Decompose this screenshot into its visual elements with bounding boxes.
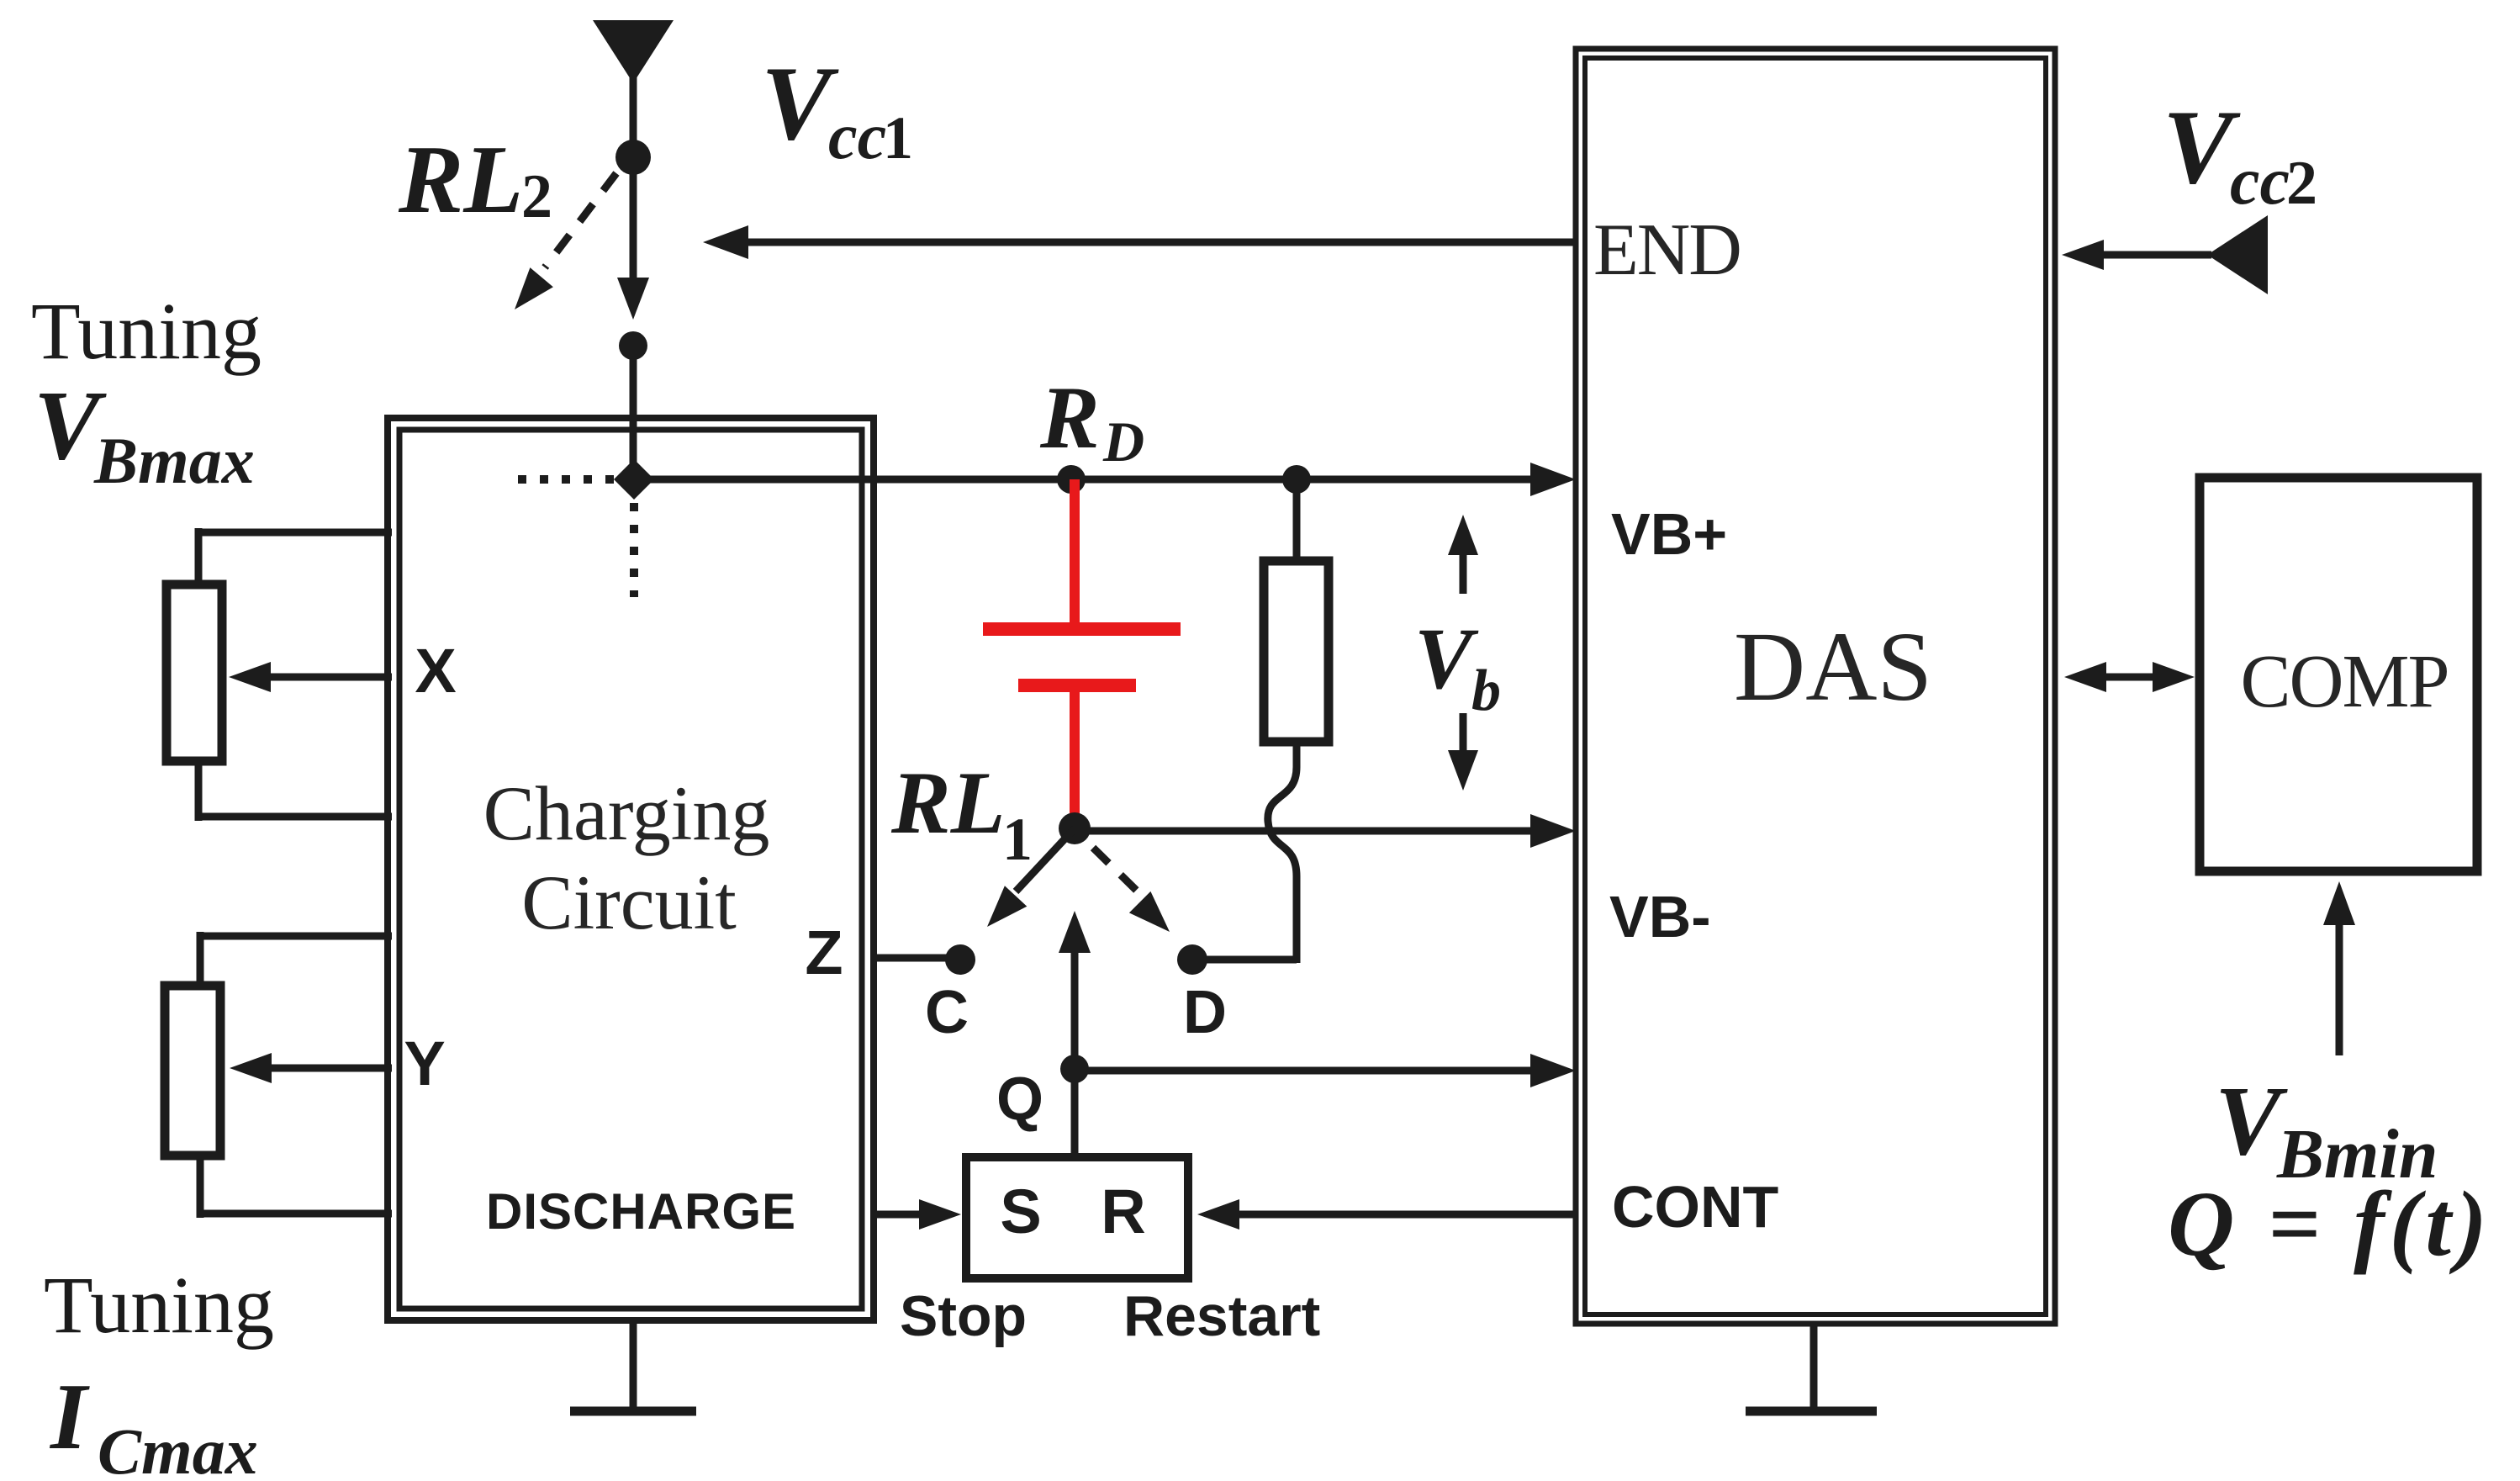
svg-text:Q = f(t): Q = f(t): [2168, 1172, 2492, 1275]
DAS block U3: [1576, 49, 2055, 1324]
svg-text:Circuit: Circuit: [521, 860, 737, 945]
svg-text:R: R: [1039, 368, 1100, 467]
svg-text:Tuning: Tuning: [44, 1260, 274, 1350]
svg-text:1: 1: [1002, 806, 1033, 873]
svg-text:RL: RL: [890, 754, 1005, 852]
svg-text:b: b: [1471, 659, 1501, 723]
svg-text:Cmax: Cmax: [98, 1415, 258, 1481]
wire X wiper arrow: [229, 662, 392, 692]
wire VB+ (node C1 to DAS): [634, 463, 1576, 496]
wire P1 top bracket: [198, 528, 392, 589]
svg-text:Q: Q: [996, 1066, 1043, 1133]
wire antenna node to node B (with arrow): [617, 157, 649, 320]
arrow Vb down: [1448, 713, 1478, 791]
node A (RL2 common): [615, 140, 651, 175]
label RD: [1039, 368, 1144, 473]
svg-text:Z: Z: [805, 918, 843, 987]
wire P2 top bracket: [200, 932, 392, 990]
label Restart: [1123, 1284, 1320, 1348]
wire Q vertical (arrow up): [1059, 911, 1091, 1157]
svg-text:D: D: [1102, 410, 1144, 473]
label Vcc2: [2163, 89, 2317, 219]
wire R input (CONT from DAS): [1197, 1199, 1578, 1230]
svg-text:2: 2: [521, 162, 552, 231]
svg-text:RL: RL: [398, 126, 523, 234]
svg-text:X: X: [415, 636, 456, 706]
node RL1 pole: [1059, 812, 1091, 844]
resistor RD body: [1264, 561, 1329, 742]
pin label D: [1183, 979, 1227, 1046]
label VBmax: [34, 370, 255, 497]
ground (charging circuit): [570, 1318, 696, 1411]
svg-text:Charging: Charging: [483, 770, 770, 856]
label Tuning (top): [31, 286, 262, 376]
pin label C: [925, 979, 969, 1046]
wire DAS-COMP double arrow: [2064, 662, 2195, 692]
svg-text:C: C: [925, 979, 969, 1046]
label ICmax: [49, 1365, 258, 1481]
node Q: [1060, 1055, 1089, 1083]
node B: [619, 331, 647, 360]
svg-text:Stop: Stop: [900, 1284, 1027, 1348]
label DISCHARGE: [486, 1183, 796, 1240]
pin label X: [415, 636, 456, 706]
COMP block U4: [2200, 478, 2477, 871]
contact C: [945, 944, 975, 975]
svg-text:DISCHARGE: DISCHARGE: [486, 1183, 796, 1240]
capacitor C (red): [983, 479, 1181, 828]
label RL1: [890, 754, 1033, 873]
pin label VB-: [1609, 884, 1711, 949]
pin label Q: [996, 1066, 1043, 1133]
node C1 (VB+ junction, diamond): [614, 459, 654, 500]
contact D: [1177, 944, 1207, 975]
wire RD to contact D: [1192, 956, 1297, 964]
svg-text:COMP: COMP: [2240, 640, 2448, 723]
svg-text:1: 1: [883, 104, 913, 172]
label COMP: [2240, 640, 2448, 723]
label Q = f(t): [2168, 1172, 2492, 1275]
wire RD top: [1293, 479, 1301, 565]
wire Q to DAS: [1075, 1054, 1576, 1087]
svg-text:V: V: [1414, 611, 1479, 707]
label RL2: [398, 126, 552, 234]
svg-text:cc: cc: [828, 99, 886, 172]
pin label Y: [404, 1029, 445, 1098]
svg-text:Restart: Restart: [1123, 1284, 1320, 1348]
pin label VB+: [1611, 501, 1727, 567]
charging circuit block U1: [388, 418, 874, 1320]
svg-text:VB-: VB-: [1609, 884, 1711, 949]
svg-text:VB+: VB+: [1611, 501, 1727, 567]
potentiometer P1 body: [166, 584, 222, 761]
label Tuning (bottom): [44, 1260, 274, 1350]
pin label END: [1593, 209, 1741, 291]
svg-text:D: D: [1183, 979, 1227, 1046]
svg-text:2: 2: [2286, 149, 2317, 218]
svg-text:CONT: CONT: [1612, 1174, 1778, 1240]
svg-text:I: I: [49, 1365, 90, 1469]
wire Z pin to contact C: [871, 955, 960, 962]
wire node B into charging circuit: [630, 346, 637, 484]
wire VB- (RL1 pole to DAS): [1075, 814, 1576, 848]
wire P2 bottom bracket: [200, 1151, 392, 1218]
dotted stub left of node C1: [518, 475, 621, 484]
potentiometer P2 body: [165, 986, 220, 1156]
antenna (Vcc1 supply symbol): [593, 20, 674, 156]
svg-text:Bmax: Bmax: [93, 424, 255, 497]
wire S input (DISCHARGE to S): [871, 1199, 961, 1230]
wire END to RL2 (arrow left): [703, 225, 1578, 259]
SR latch U2: [966, 1157, 1188, 1278]
label VBmin: [2215, 1066, 2438, 1193]
svg-text:END: END: [1593, 209, 1741, 291]
switch RL2 dashed arm: [515, 173, 616, 309]
label DAS: [1734, 611, 1932, 722]
svg-text:DAS: DAS: [1734, 611, 1932, 722]
pin label S: [1000, 1177, 1041, 1246]
wire VBmin arrow into COMP: [2323, 881, 2355, 1055]
svg-text:R: R: [1101, 1177, 1145, 1246]
label Vcc1: [761, 45, 913, 172]
label Vb: [1414, 611, 1501, 723]
switch RL1 dashed arm to D: [1093, 848, 1170, 932]
svg-text:Y: Y: [404, 1029, 445, 1098]
pin label R: [1101, 1177, 1145, 1246]
wire P1 bottom bracket: [198, 757, 392, 821]
wire RD bottom with squiggle: [1268, 738, 1297, 963]
arrow Vb up: [1448, 515, 1478, 594]
pin label CONT: [1612, 1174, 1778, 1240]
label Stop: [900, 1284, 1027, 1348]
Vcc2 source arrow into DAS: [2062, 215, 2268, 294]
svg-text:cc: cc: [2230, 145, 2290, 219]
switch RL1 solid arm to C: [987, 828, 1075, 927]
dotted stub below node C1: [630, 503, 638, 597]
node VB+ at capacitor: [1057, 465, 1086, 494]
wire Y wiper arrow: [230, 1053, 392, 1083]
svg-text:S: S: [1000, 1177, 1041, 1246]
pin label Z: [805, 918, 843, 987]
ground (DAS): [1746, 1325, 1877, 1411]
label Charging Circuit: [483, 770, 770, 945]
node VB+ at RD: [1282, 465, 1311, 494]
svg-text:Tuning: Tuning: [31, 286, 262, 376]
